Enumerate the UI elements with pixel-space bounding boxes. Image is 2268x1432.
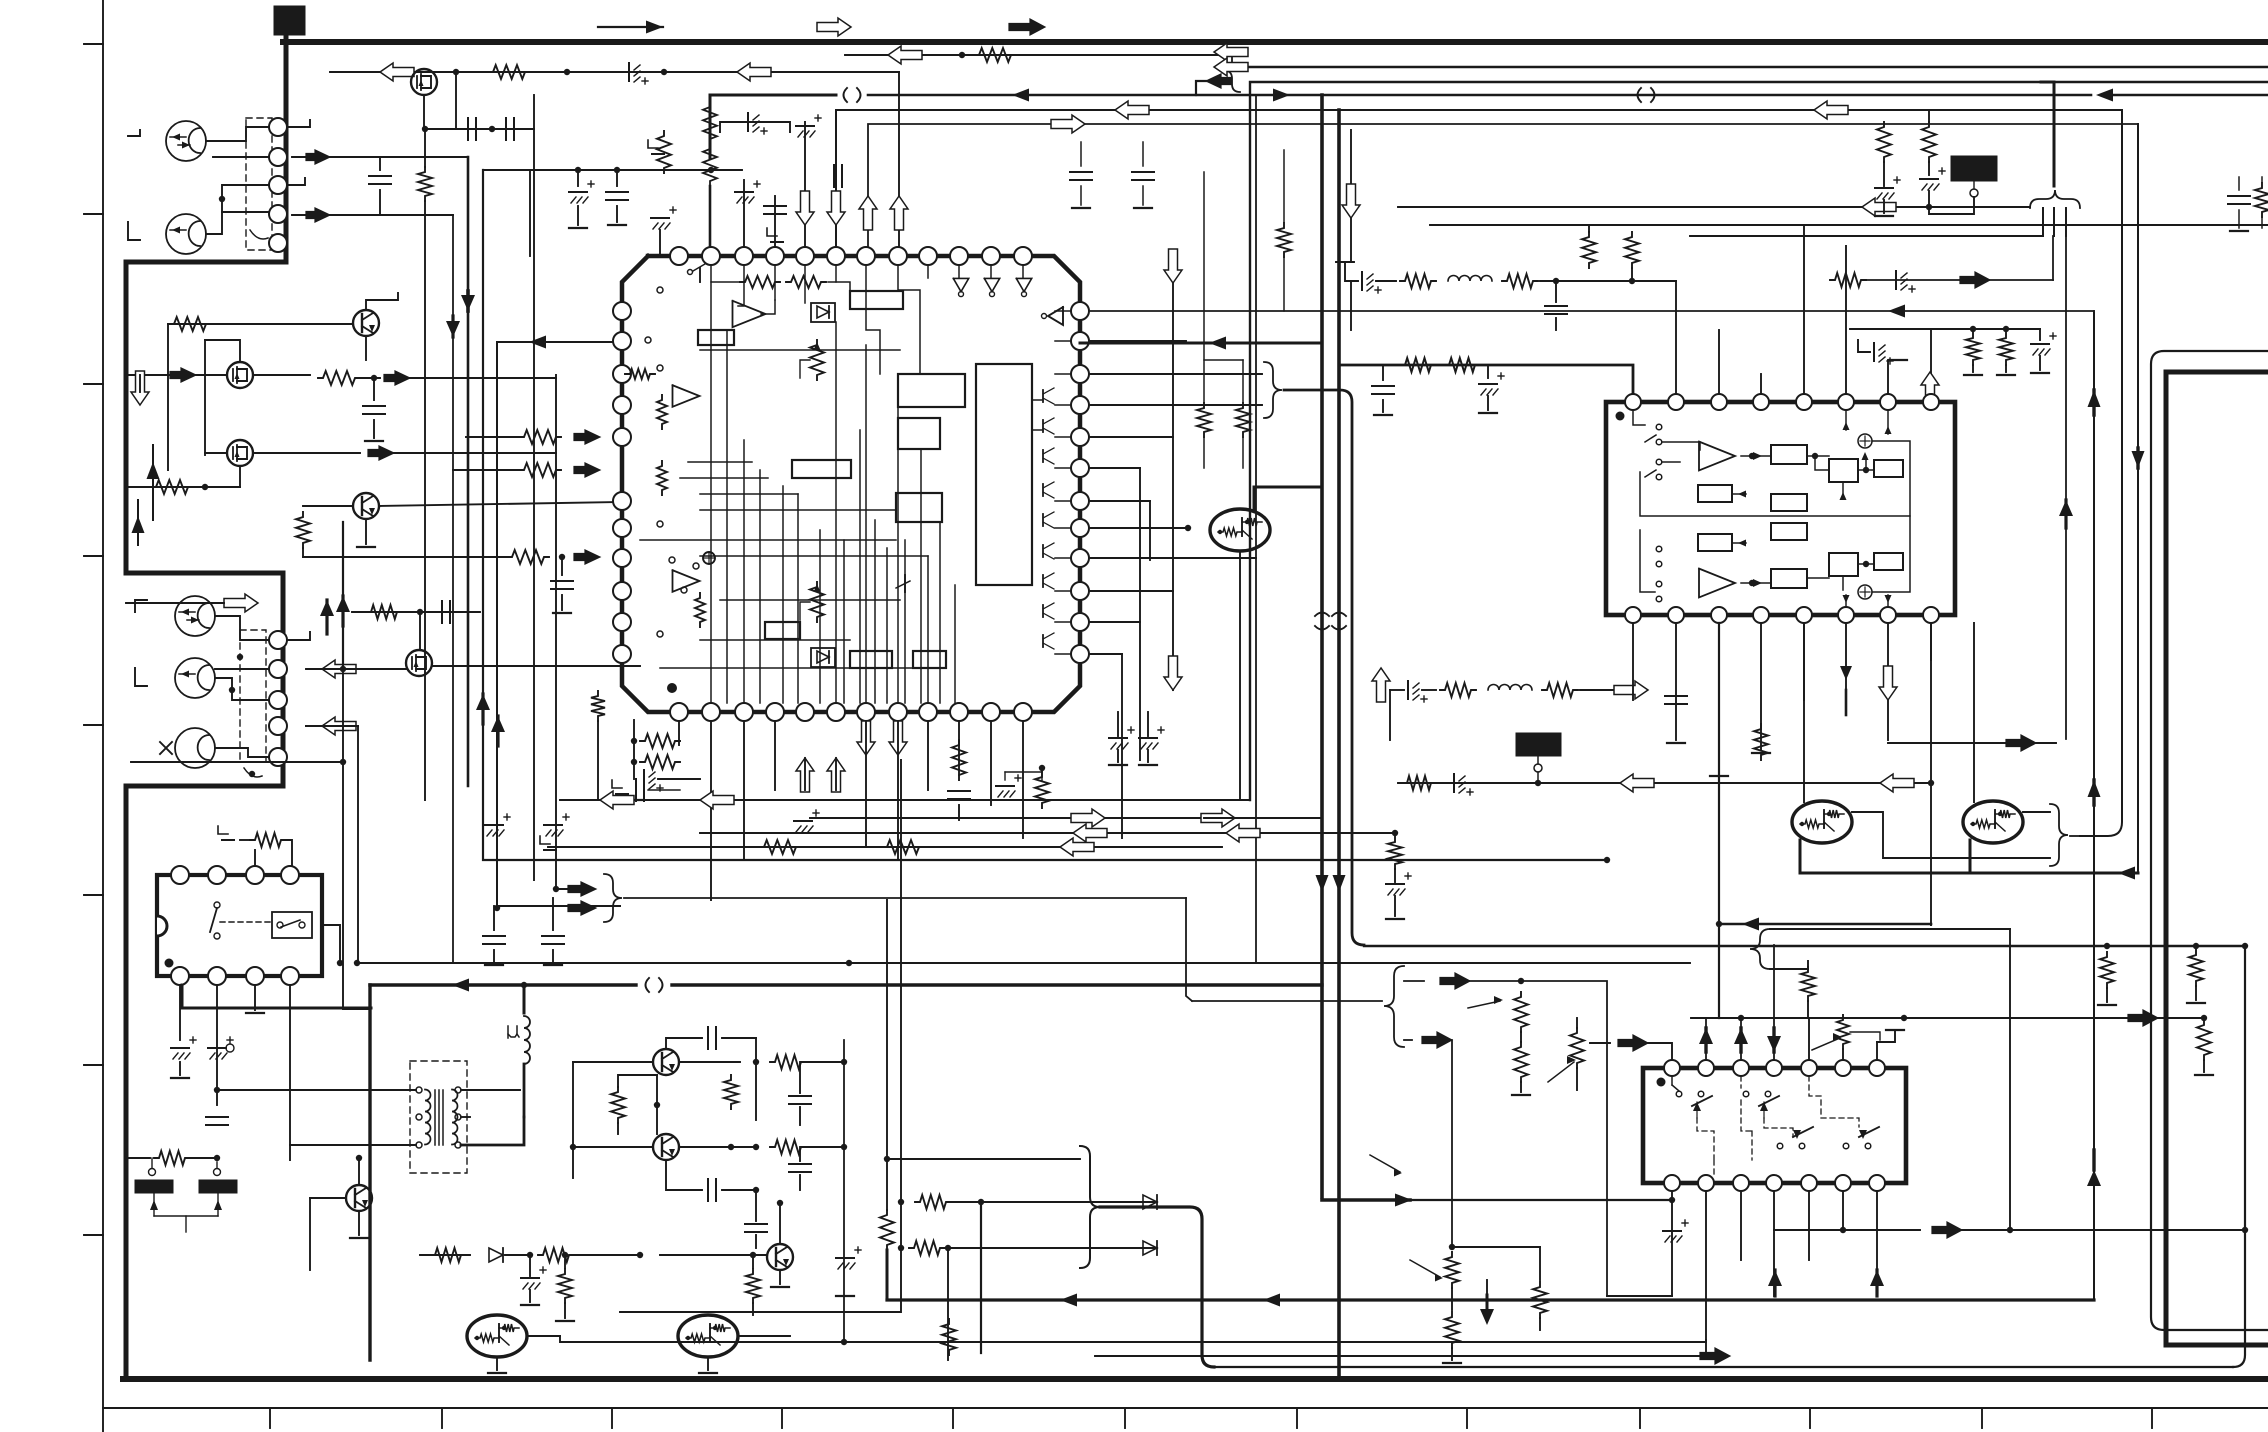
resistor x1395 below y833 (1388, 837, 1402, 869)
U1 inner vertical wires center (710, 282, 712, 703)
cap x380 y170-200 (379, 157, 381, 170)
oval dual transistor Q11 (678, 1315, 738, 1357)
U2 pin3 long riser down to y1018 (1718, 623, 1720, 1018)
resistor x425 vertical y185 (418, 167, 432, 201)
thin wire y963 long (357, 962, 1690, 964)
U1 internal block D (896, 493, 942, 522)
wire y847 resistor pair (548, 846, 1222, 848)
inductor vertical x524 (524, 1016, 530, 1064)
U3 riser pin3 with up arrow (1740, 1018, 1742, 1060)
wires down to IC pins x805-899 (804, 122, 806, 256)
resistor far top right x2262 (2261, 177, 2263, 182)
solid arrow y1230 (1932, 1222, 1962, 1238)
black rectangle mid right (1516, 733, 1561, 756)
J2 dashed cable box (240, 630, 266, 762)
transformer T1 dashed box (410, 1061, 467, 1173)
resistor diode row 2 y1248 (898, 1245, 904, 1251)
solid arrow right end y1018 (2128, 1010, 2158, 1026)
up arrows on rails x483/x497 (476, 694, 490, 710)
rail x468 thick from y157 down with flow arrow (467, 157, 470, 786)
electrolytic caps below relay (171, 1047, 189, 1049)
cap vertical x756 y1220 (745, 1223, 767, 1225)
page frame: left ruler line (102, 0, 104, 1432)
inner bottom line y1367 (1214, 1366, 2233, 1368)
resistor arrow feed pin y437 (466, 436, 520, 438)
wire y72 top-left area (330, 71, 899, 73)
ground left x598 (625, 799, 643, 801)
U2 pin8 riser with open arrow (1930, 329, 1932, 394)
ecap below diode row (521, 1277, 539, 1279)
bus line C y95 long (868, 94, 2091, 97)
right inner border thick ring (2166, 372, 2268, 1345)
wires to Q9 (564, 1255, 566, 1268)
black rectangle contact bar right (199, 1180, 237, 1193)
wire x1351 down from y281 (1350, 281, 1352, 330)
resistor above relay (218, 826, 228, 834)
flow arrows on bus pair (1316, 875, 1329, 892)
U2 inner wiring (1633, 410, 1645, 425)
wire y55 with resistor (845, 54, 1228, 56)
bus line C2 y95 right segment (2106, 94, 2268, 96)
FET Q4 (227, 440, 253, 466)
U1 internal big block (976, 364, 1032, 585)
wires below IC bottom pins going down (678, 721, 680, 745)
U2 opamp upper (1699, 442, 1735, 471)
wire pot to U3 pin1 riser (1590, 1042, 1610, 1044)
Q6 emitter (358, 1211, 360, 1235)
page origin black square marker (274, 6, 305, 35)
line y280 with arrow up corner x2053 (1862, 279, 2053, 281)
cap far top right x2239 (2238, 177, 2240, 190)
wire y553 from resistor to U1 pin (302, 548, 304, 557)
breaks on thick y95 (844, 88, 848, 102)
right vertical x2122 curving into brace (2080, 110, 2122, 836)
vertical x1122 line (1121, 654, 1123, 838)
U2 block r7 (1829, 553, 1858, 576)
left pointer arrow small x1395 y1168 (1370, 1155, 1400, 1172)
vertical x556 down (556, 375, 580, 889)
brace at left end of top bus (1224, 49, 1240, 92)
wire y530 from x126 vertical x168 (167, 324, 169, 470)
U1 transistor micro 1 (699, 268, 701, 282)
resistor x1452 bottom cluster (1449, 1244, 1455, 1250)
electrolytic x1884 y190 (1875, 187, 1893, 189)
left ruler tick marks (84, 43, 103, 45)
transistor Q2 npn (353, 310, 379, 336)
small L-ground symbols y150 x650 (648, 140, 658, 148)
potentiometer chain x1521 (1514, 992, 1528, 1032)
vertical x1140 line (1139, 468, 1141, 760)
J1 small curved hook bottom (250, 230, 268, 239)
resistor v x1284 (1283, 150, 1285, 222)
bottom border thick line (123, 1376, 2268, 1382)
U1 small circles switches (657, 287, 663, 293)
T1 primary coil (425, 1090, 431, 1145)
wire x530 y170 down (529, 170, 531, 256)
U2 opamp lower (1699, 569, 1735, 598)
connector J2 plug 2 (175, 658, 215, 698)
U1 summing node (703, 552, 715, 564)
U2 switch contacts lower (1656, 546, 1662, 552)
U1 internal block B (898, 418, 940, 449)
vertical x2010 from y929 down (2009, 929, 2011, 1230)
black rectangle top right (1951, 156, 1997, 181)
U3 switch 3 (1777, 1143, 1783, 1149)
junction dots y72 (453, 69, 459, 75)
U1 opamp 1 (733, 301, 766, 327)
vertical x2245 to inner bottom line (2233, 946, 2245, 1367)
resistor x2196 below y946 (2189, 950, 2203, 986)
FET QJ2 at x419 (406, 650, 432, 676)
wire y157 from connector to right (292, 156, 468, 158)
brace mid right x1398 splitting (1384, 966, 1404, 1047)
J2 wires (215, 616, 269, 640)
wire y945 to right (1364, 945, 2245, 947)
U2 pin1 dot (1616, 412, 1625, 421)
T1 secondary coil (452, 1090, 458, 1145)
bracket marks left of J1 (128, 130, 140, 136)
U1 opamp 3 (673, 570, 700, 592)
cap x617 y170-215 (616, 170, 618, 186)
U2 pin4 riser (1760, 374, 1762, 394)
Q13 top riser from U2 pin5 (1803, 623, 1805, 802)
Q10/Q11 wires (496, 1357, 498, 1370)
electrolytic x803 y825 (794, 820, 812, 822)
resistor y1147 right (770, 1140, 806, 1154)
U1 inverter left facing (1048, 307, 1063, 325)
cap symbol x635 on y72 (628, 63, 630, 81)
wire y323 with resistor to Q2 (168, 323, 352, 325)
wire y762 from border (131, 761, 343, 763)
cap x775 (764, 205, 786, 207)
vertical x2066 with flow arrow (2065, 208, 2067, 739)
Q2 emitter down (365, 336, 367, 360)
wire from Q4 right with arrow (253, 452, 360, 454)
bus break right (1638, 88, 1642, 102)
solid arrows into brace x582 (568, 882, 596, 896)
U1 micro transistor q2 (896, 581, 910, 588)
wire y1340 bottom (700, 1389, 1706, 1391)
relay bottom pins (171, 967, 189, 985)
brace x2056 merging oval outputs (2050, 804, 2068, 866)
wire cluster x744-775 above IC (743, 180, 745, 256)
cap and resistor right of Q7/Q8 (679, 1061, 740, 1063)
push-pull wiring (666, 1038, 702, 1049)
thick line y95 from x710 (710, 95, 836, 158)
caps x800 lower (789, 1163, 811, 1165)
vertical x1256 long (1255, 95, 1257, 963)
vertical x205 connecting Q2/Q3 rail (204, 340, 206, 455)
transistor Q1 top FET (411, 69, 437, 95)
vertical x483 wire turning right at y860 long (483, 170, 1607, 860)
relay top pins (171, 866, 189, 884)
Q5 collector wire right y502 (379, 502, 622, 506)
chain origin x1323 brace (1339, 253, 1351, 281)
bus line A y67 (1232, 66, 2268, 68)
connector J1 plug lower (166, 214, 206, 254)
push-pull transistor Q7 (653, 1049, 679, 1075)
wire y833 with arrows (700, 832, 1395, 834)
U1 inverter triangles top (953, 278, 968, 291)
brace right x612 (604, 874, 622, 922)
x2094 corner at y311 (2093, 311, 2095, 313)
cluster right of U2 top y329 (1850, 328, 2040, 330)
thick wire y343 from U1 to bus (1080, 342, 1322, 345)
wire from U1 pin y311 to x2094 with left arrow (1089, 310, 2094, 312)
cap below y557 (561, 557, 563, 575)
rail x844 vertical (843, 1040, 845, 1342)
U3 riser pin4 with down arrow (1773, 945, 1775, 1060)
resistor horizontal y1158 (126, 1157, 150, 1159)
resistor vertical x664 below y72 (657, 131, 671, 173)
U2 block r8 (1874, 553, 1903, 570)
U1 right wires y437-528 (1089, 436, 1173, 438)
U2 pin5 riser (1803, 225, 1805, 394)
U2 block r5 (1698, 534, 1732, 551)
U2 summing circle lower (1858, 585, 1872, 599)
resistor pair right of U1 x1204 (1203, 172, 1205, 402)
black rectangle contact bar left (135, 1180, 173, 1193)
resistor R at y72 (488, 65, 530, 79)
small curved hook below J2 (244, 768, 262, 777)
electrolytic x744 (735, 191, 753, 193)
relay coil box (272, 912, 312, 938)
T1 core lines (434, 1090, 436, 1145)
Q6 base wire (310, 1197, 346, 1199)
right inner border thin ring (2151, 351, 2268, 1330)
J1 wires to plugs (206, 127, 269, 141)
cap small x640 y790 (635, 779, 637, 801)
U2 block r3 (1829, 459, 1858, 482)
U1 resistor internal top (740, 276, 780, 288)
cap x756 y1190 (666, 1160, 702, 1190)
U1 left pins (613, 302, 631, 320)
transistor Q6 npn near transformer (346, 1185, 372, 1211)
U1 internal block H (850, 651, 892, 668)
bracket marks left of J2 (135, 600, 147, 612)
U3 riser pin6 pot (1837, 1015, 1849, 1049)
Q12 thick collector to bus (1254, 487, 1322, 509)
thick line from brace to x1352 down (1284, 390, 1364, 945)
U3 riser pin2 with up arrow (1705, 1018, 1707, 1060)
ecap on rail x844 (836, 1257, 854, 1259)
FET gate feed network (352, 611, 480, 613)
cap cluster above U1 right x1081 (1080, 142, 1082, 166)
break marks on bus pair (1315, 613, 1329, 617)
open arrows at J2 pins (322, 660, 356, 678)
pointer arrow onto pot x1521 (1468, 1001, 1500, 1008)
U3 below wire from x1607 (1607, 1295, 1672, 1297)
thick feed y365 from bus to U2 pin1 (1339, 365, 1633, 394)
brace x1272 for U1 outputs (1089, 373, 1262, 375)
IC U3 body rectangle (1643, 1068, 1906, 1183)
U2 block r4 (1874, 460, 1903, 477)
resistors above filter y250 (1582, 232, 1596, 268)
solid arrow on y375 (170, 368, 196, 382)
open arrows below IC pins (796, 758, 814, 792)
relay pin1 dot (165, 959, 174, 968)
U1 resistor left inner (625, 369, 655, 379)
J1 board pins (269, 118, 287, 136)
open right arrow y690 (1614, 681, 1648, 699)
U3 dashed control lines (1697, 1118, 1714, 1175)
U1 internal block C (792, 460, 851, 478)
U3 riser pin5 (1808, 1018, 1810, 1060)
top border thick line (283, 39, 2268, 45)
electrolytic pair x1118/1148 y740 (1109, 737, 1127, 739)
transistor Q9 (767, 1244, 793, 1270)
resistor chain left of IC bottom (631, 738, 637, 744)
line y236 from brace (1690, 235, 2043, 237)
electrolytic cap x805 y130 (796, 125, 814, 127)
bottom cluster resistors x948 (942, 1319, 956, 1355)
Q9 connections (779, 1203, 781, 1244)
up arrows below U3 (1768, 1270, 1782, 1286)
wire y800 long with open arrows (560, 799, 1250, 801)
open arrow y207 (1862, 198, 1896, 216)
right vertical x2138 with down arrow to y873 (2137, 124, 2139, 873)
pot x1577 and arrow to U3 pin1 (1576, 1018, 1578, 1028)
wires below U2 pins (1675, 623, 1677, 740)
line y929 from splitter to x2010 (1770, 928, 2010, 930)
U1 opamp 2 (673, 385, 700, 407)
vertical x901 rail (620, 760, 901, 1312)
U1 pot 2 (810, 582, 824, 622)
U2 pin3 riser (1718, 330, 1720, 394)
bus pair bottom corner turning right with flow arrow (1322, 1198, 1410, 1202)
wires below contact bars (153, 1193, 155, 1216)
U1 pin1 dot (667, 683, 677, 693)
T1 wires left (217, 1089, 416, 1091)
connector J2 plug 3 (175, 728, 215, 768)
brace bottom right x1089 (1080, 1146, 1100, 1268)
top flow arrows above border (598, 26, 663, 28)
open left arrow on y72 at x723 (737, 63, 771, 81)
U1 internal block F (698, 330, 734, 345)
contact circles y1172 (149, 1169, 156, 1176)
thick elbow from relay pin1b to bus corner (182, 985, 371, 1008)
resistor diode row 1 y1202 (898, 1199, 904, 1205)
thick down arrow x1846 (1845, 690, 1848, 715)
Q13/Q14 thick bottom wires (1799, 840, 1802, 873)
wire segments near Q1 (423, 95, 425, 129)
wire y898 corner down x1187 to y1001 (1186, 898, 1192, 1001)
J1 dashed cable box (246, 118, 272, 250)
solid up arrows x138/x153 (152, 445, 154, 520)
vertical x887 rail (886, 900, 888, 1159)
horizontal wires into IC left pins (560, 322, 622, 324)
U3 bottom pins (1664, 1175, 1680, 1191)
open arrow on y124 (1051, 115, 1085, 133)
U1 right wires lower y558-654 (1089, 557, 1256, 559)
FET Q3 (227, 362, 253, 388)
U1 inner right wires (1032, 399, 1043, 401)
electrolytic x660 y230 (651, 217, 669, 219)
U2 summing circle upper (1858, 434, 1872, 448)
relay K1 box (157, 875, 322, 976)
J2 wire y669 to FET (306, 668, 407, 670)
electrolytic x1929 y185 (1920, 178, 1938, 180)
bottom ruler tick marks (269, 1408, 271, 1428)
resistor x2107 below y946 (2104, 943, 2110, 949)
electrolytic on x556 (544, 824, 562, 826)
wire U1 y341 (1089, 340, 1186, 342)
U1 potentiometer 1 (810, 340, 824, 380)
thick horizontal y1300 (887, 1298, 2094, 1301)
electrolytic below U3 pin1 (1663, 1230, 1681, 1232)
electrolytic on x497 (485, 824, 503, 826)
wires rows to brace (1078, 1201, 1157, 1203)
U2 block r6 (1771, 569, 1807, 588)
Q5 base resistor (303, 505, 353, 507)
resistors x1884/x1929 y140 (1877, 122, 1891, 162)
U1 top pins (670, 247, 688, 265)
pointer arrow onto pot x1577 (1548, 1062, 1574, 1082)
J2 wire y726 to right then down x358 (306, 725, 358, 727)
arrow lines after mid brace (1404, 980, 1424, 982)
J2 pin tail top (287, 632, 310, 640)
open up arrow near filter2 (1372, 668, 1390, 702)
solid arrow on y212 (306, 208, 330, 222)
U1 inner wires top (711, 265, 740, 282)
vertical line x2054 from bus B (2041, 82, 2054, 186)
thick bus y985 (370, 983, 636, 986)
bus line D y110 from x836 corner (836, 110, 2122, 256)
merged wire y898 to right (624, 897, 1186, 899)
U2 pin6 riser (1845, 246, 1847, 394)
open arrows on y110 (1115, 101, 1149, 119)
wire from x1540 to arrow (1486, 1280, 1488, 1295)
bottom arrows near x1360 (1339, 1355, 1375, 1357)
ground mark x773 y235 (767, 228, 777, 236)
cap x1633 below U2 (1632, 623, 1634, 700)
wires below top-right brace (2042, 208, 2044, 236)
curly brace top right connector (2030, 190, 2080, 208)
resistor y1062 to x844 (770, 1055, 806, 1069)
vertical x948/x981 rails (947, 1248, 949, 1360)
open right arrow x240 y573 below (224, 594, 258, 612)
U2 block r1 (1771, 445, 1807, 464)
resistor x2204 below y1018 (2197, 1020, 2211, 1060)
U3 top pins (1664, 1060, 1680, 1076)
U2 pin3 bottom elbow to right with arrow (1719, 923, 1931, 926)
resistor cluster below IC x959 (952, 740, 966, 780)
U1 diode box 1 (811, 303, 835, 322)
thick line after brace turning down to y1367 (1100, 1207, 1214, 1367)
oval dual transistor Q12 (1210, 509, 1270, 551)
bus line E y124 from x868 corner (868, 124, 2138, 256)
wire y1001 right to brace (1192, 1000, 1382, 1002)
oval dual transistor Q14 (1963, 801, 2023, 843)
resistor left of Q4 rail (126, 486, 200, 488)
solid arrow into bus B (1206, 74, 1232, 88)
solid arrow y1356 bottom (1700, 1348, 1730, 1364)
open down arrow x140 y380 (131, 371, 149, 405)
diode chain row y1255 (420, 1254, 470, 1256)
U2 switch contacts upper (1656, 424, 1662, 430)
transistor Q5 npn lower (353, 493, 379, 519)
thick up arrow x2094 y1180 (2087, 1170, 2101, 1186)
J1 pin tails right (287, 120, 310, 127)
connector J2 plug 1 (175, 596, 215, 636)
vertical x534 down (533, 95, 535, 129)
U1 diode box 2 (811, 648, 835, 667)
Q3 to resistor to junction (253, 374, 310, 376)
Q12 bottom lead (1239, 551, 1241, 800)
pot pointer bottom left (1410, 1260, 1440, 1277)
resistor stack x710 (703, 102, 717, 144)
wire y1018 long right (1691, 1017, 2204, 1019)
